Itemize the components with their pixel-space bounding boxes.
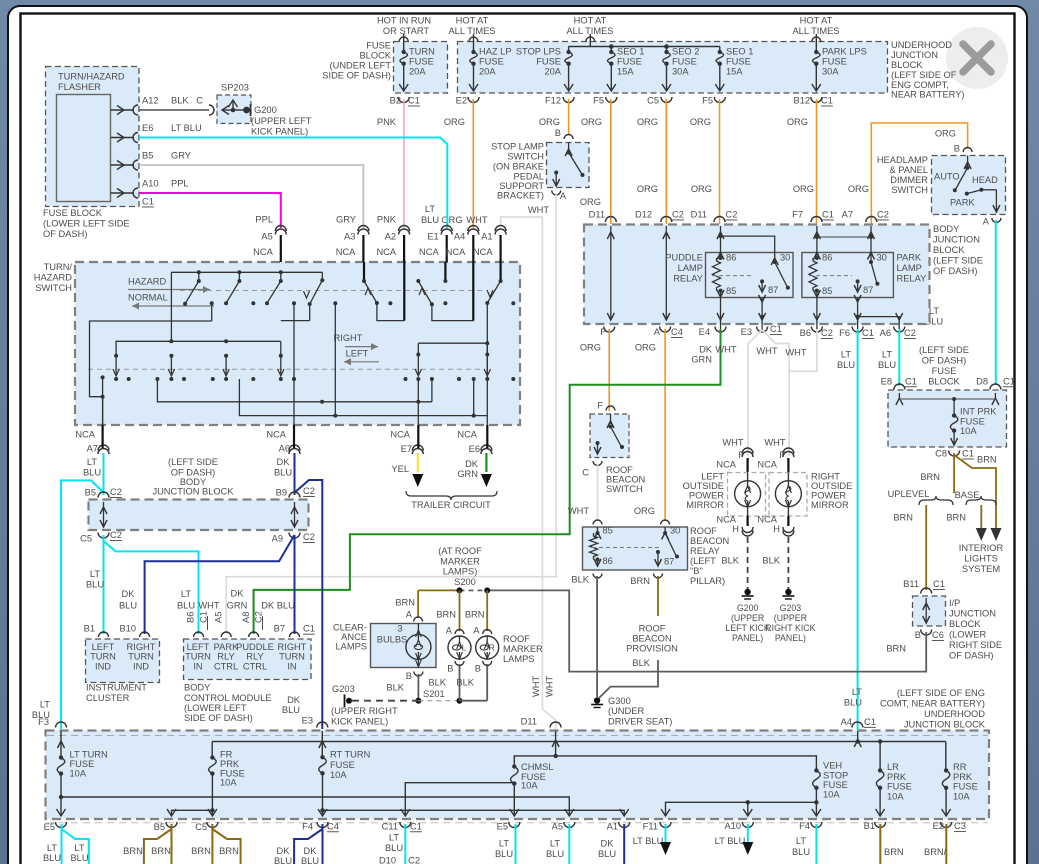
wire BLK dashed left mirror to G200: [747, 537, 749, 589]
svg-text:20A: 20A: [544, 67, 561, 77]
svg-text:C5: C5: [195, 822, 207, 832]
svg-text:RIGHT KICK: RIGHT KICK: [765, 623, 815, 633]
stop lamp switch box: [547, 143, 590, 188]
svg-text:GRY: GRY: [171, 151, 191, 161]
svg-text:DK: DK: [304, 846, 318, 856]
svg-text:BODY: BODY: [933, 224, 959, 234]
underhood junction block (top) box: [458, 42, 888, 94]
svg-text:C1: C1: [1003, 376, 1015, 386]
svg-text:A10: A10: [142, 179, 159, 189]
wire ORG B12 to F7: [816, 99, 818, 224]
svg-text:LEFT: LEFT: [187, 642, 210, 652]
svg-text:BRN: BRN: [436, 609, 456, 619]
svg-text:BLOCK: BLOCK: [928, 376, 960, 386]
svg-text:C4: C4: [327, 821, 339, 831]
svg-text:PNK: PNK: [377, 215, 397, 225]
svg-text:ORG: ORG: [793, 184, 814, 194]
svg-text:D10: D10: [379, 855, 396, 864]
svg-text:NCA: NCA: [757, 460, 777, 470]
wire WHT B6 to mirror join: [789, 329, 817, 371]
svg-text:BLU: BLU: [878, 360, 896, 370]
svg-text:NCA: NCA: [473, 247, 493, 257]
svg-text:C2: C2: [303, 486, 315, 496]
svg-text:LT BLU: LT BLU: [633, 836, 664, 846]
pin F12: [563, 97, 574, 103]
svg-text:A3: A3: [344, 231, 355, 241]
svg-text:F11: F11: [643, 821, 658, 831]
svg-text:(LEFT: (LEFT: [690, 556, 716, 566]
svg-text:INSTRUMENT: INSTRUMENT: [86, 683, 147, 693]
svg-text:KICK PANEL): KICK PANEL): [331, 717, 388, 727]
svg-text:C2: C2: [726, 210, 738, 220]
switch stationary dots row1: [210, 301, 214, 305]
svg-text:WHT: WHT: [568, 506, 589, 516]
right marker bulb: [476, 636, 499, 659]
svg-text:(LEFT SIDE: (LEFT SIDE: [919, 345, 969, 355]
svg-text:F5: F5: [593, 96, 604, 106]
svg-text:LT: LT: [796, 836, 806, 846]
svg-text:C2: C2: [877, 210, 889, 220]
pin B12 C1: [811, 97, 822, 103]
svg-text:ORG: ORG: [581, 117, 602, 127]
svg-text:FUSE: FUSE: [70, 759, 95, 769]
svg-text:LT: LT: [841, 350, 851, 360]
svg-text:BLU: BLU: [282, 705, 300, 715]
svg-text:RIGHT: RIGHT: [811, 472, 840, 482]
wire LT BLU E5b down: [515, 824, 517, 864]
park relay coil 86-85: [816, 248, 818, 258]
svg-text:STOP: STOP: [823, 770, 848, 780]
svg-text:BLK: BLK: [721, 556, 739, 566]
svg-text:F: F: [597, 401, 603, 411]
svg-text:RR: RR: [953, 762, 967, 772]
svg-text:C1: C1: [962, 449, 974, 459]
wire WHT stop lamp A down to BCM A5: [226, 193, 556, 634]
svg-text:C4: C4: [671, 327, 683, 337]
wires BLK markers to S201: [459, 664, 461, 701]
svg-text:PARK: PARK: [897, 253, 922, 263]
svg-text:B: B: [555, 128, 561, 138]
svg-text:ORG: ORG: [444, 117, 465, 127]
svg-text:RIGHT SIDE: RIGHT SIDE: [949, 640, 1002, 650]
svg-text:CTRL: CTRL: [243, 661, 267, 671]
feed bus A4 row: [212, 741, 946, 743]
svg-text:A10: A10: [724, 821, 741, 831]
svg-text:NCA: NCA: [376, 247, 396, 257]
svg-text:SYSTEM: SYSTEM: [962, 564, 1000, 574]
svg-text:BLK: BLK: [456, 677, 474, 687]
switch contact A1: [500, 262, 502, 281]
trailer circuit brace: [406, 491, 497, 500]
fuse block (under left side of dash) box: [394, 42, 448, 94]
svg-text:A: A: [560, 191, 567, 201]
svg-text:TURN: TURN: [279, 652, 305, 662]
wires BRN S200 to marker lamps: [459, 590, 461, 631]
svg-text:10A: 10A: [70, 769, 87, 779]
svg-text:HOT IN RUN: HOT IN RUN: [377, 16, 431, 26]
fuse SEO 1 second FUSE 15A: [718, 50, 722, 54]
svg-text:RIGHT: RIGHT: [334, 333, 363, 343]
svg-text:NCA: NCA: [716, 460, 736, 470]
svg-text:B: B: [954, 144, 960, 154]
wire LT BLU F6 to A4 bottom: [857, 329, 859, 730]
svg-text:COMT, NEAR BATTERY): COMT, NEAR BATTERY): [880, 699, 985, 709]
svg-text:FUSE: FUSE: [672, 57, 697, 67]
svg-text:F: F: [738, 450, 744, 460]
svg-text:OUTSIDE: OUTSIDE: [683, 481, 724, 491]
svg-text:10A: 10A: [887, 791, 904, 801]
svg-text:DRIVER SEAT): DRIVER SEAT): [608, 717, 672, 727]
svg-text:C1: C1: [862, 328, 874, 338]
wire WHT E3 split to mirrors: [748, 330, 762, 456]
svg-text:ROOF: ROOF: [690, 526, 717, 536]
svg-text:PRK: PRK: [887, 772, 907, 782]
wire YEL E7 trailer: [417, 453, 419, 472]
svg-text:10A: 10A: [953, 791, 970, 801]
wire PNK B2 to A2: [403, 99, 405, 228]
svg-text:E1: E1: [427, 231, 438, 241]
wire DK BLU A1 down: [623, 824, 625, 864]
svg-text:JUNCTION BLOCK: JUNCTION BLOCK: [152, 487, 234, 497]
pin F5: [606, 97, 617, 103]
svg-text:FUSE: FUSE: [960, 417, 985, 427]
svg-text:A8: A8: [241, 612, 251, 623]
svg-text:C1: C1: [933, 579, 945, 589]
pin A12 with arrow: [111, 109, 135, 111]
svg-text:B1: B1: [864, 821, 875, 831]
pin D11b C2 body jb: [714, 217, 725, 223]
svg-text:BEACON: BEACON: [690, 536, 729, 546]
svg-text:ORG: ORG: [637, 117, 658, 127]
svg-text:E6: E6: [142, 123, 153, 133]
wire BLK clearance B to S201: [417, 674, 419, 701]
svg-text:C5: C5: [647, 96, 659, 106]
svg-text:C2: C2: [672, 210, 684, 220]
right outside power mirror box: [769, 473, 807, 517]
wire LT BLU F4b down: [815, 824, 817, 864]
svg-text:15A: 15A: [617, 67, 634, 77]
svg-text:H: H: [773, 524, 780, 534]
svg-text:PEDAL: PEDAL: [514, 172, 545, 182]
svg-text:PRK: PRK: [220, 759, 240, 769]
svg-text:A5: A5: [261, 231, 272, 241]
svg-text:BASE: BASE: [955, 490, 980, 500]
bottom junction block box: [46, 731, 990, 820]
turn/hazard flasher inner module: [57, 95, 111, 202]
svg-text:"B": "B": [690, 566, 703, 576]
svg-text:NCA: NCA: [266, 429, 286, 439]
switch exit E6: [486, 303, 488, 425]
svg-text:LT: LT: [550, 838, 560, 848]
left jb internal arrows: [103, 502, 105, 527]
svg-text:BLU: BLU: [274, 468, 292, 478]
svg-text:15A: 15A: [726, 67, 743, 77]
svg-text:F: F: [779, 450, 785, 460]
svg-text:A12: A12: [142, 96, 159, 106]
svg-text:10A: 10A: [823, 790, 840, 800]
pin B clearance lamps: [414, 672, 423, 677]
svg-text:LT: LT: [181, 589, 191, 599]
svg-text:(UNDER LEFT: (UNDER LEFT: [330, 61, 392, 71]
svg-text:B11: B11: [903, 579, 919, 589]
roof beacon switch box: [590, 414, 629, 458]
svg-text:C1: C1: [822, 210, 834, 220]
wire DK BLU A6 to B9: [294, 453, 296, 495]
svg-text:HOT AT: HOT AT: [456, 16, 489, 26]
pin D8 C1: [990, 384, 1001, 390]
svg-text:85: 85: [603, 526, 613, 536]
svg-text:L: L: [462, 643, 467, 653]
svg-text:E6: E6: [469, 444, 480, 454]
svg-text:UNDERHOOD: UNDERHOOD: [924, 709, 985, 719]
ground G203 right: [785, 589, 791, 595]
wire ORG C5 to D12: [665, 99, 667, 224]
svg-text:F6: F6: [839, 328, 850, 338]
svg-text:B5: B5: [85, 488, 96, 498]
svg-text:LEFT: LEFT: [346, 349, 369, 359]
svg-text:30A: 30A: [672, 67, 689, 77]
pin E6 with arrow: [111, 137, 135, 139]
puddle relay 30 feed: [721, 236, 775, 252]
park relay switch arm: [870, 248, 872, 262]
pin A headlamp dimmer: [992, 218, 1001, 223]
svg-text:30A: 30A: [822, 67, 839, 77]
svg-text:SWITCH: SWITCH: [35, 283, 72, 293]
clearance bulb symbol: [406, 634, 431, 659]
svg-text:DIMMER: DIMMER: [890, 175, 928, 185]
park 87 branch to A6: [858, 317, 900, 330]
svg-text:C2: C2: [408, 855, 420, 864]
svg-text:(ON BRAKE: (ON BRAKE: [493, 162, 544, 172]
svg-text:TURN: TURN: [128, 652, 154, 662]
svg-text:OF DASH): OF DASH): [43, 229, 87, 239]
svg-text:A5: A5: [552, 821, 563, 831]
fuse STOP LPS FUSE 20A: [566, 50, 570, 54]
svg-text:FUSE: FUSE: [823, 780, 848, 790]
svg-text:CLEAR-: CLEAR-: [333, 623, 367, 633]
svg-text:LAMPS): LAMPS): [443, 567, 478, 577]
svg-text:CTRL: CTRL: [214, 661, 238, 671]
svg-text:C1: C1: [770, 324, 782, 334]
wire BRN base arrow: [980, 505, 982, 528]
fuse PARK LPS FUSE 30A: [815, 34, 817, 52]
svg-text:BRN/: BRN/: [924, 847, 947, 857]
svg-text:FR: FR: [220, 749, 233, 759]
ground G200: [744, 589, 750, 595]
svg-text:C2: C2: [110, 530, 122, 540]
svg-text:B5: B5: [154, 822, 165, 832]
svg-text:85: 85: [822, 286, 832, 296]
svg-text:ORG: ORG: [787, 117, 808, 127]
svg-text:HAZ LP: HAZ LP: [479, 47, 512, 57]
fuse HAZ LP FUSE 20A: [473, 34, 475, 52]
svg-text:TURN/: TURN/: [44, 262, 73, 272]
svg-text:B6: B6: [800, 328, 811, 338]
svg-text:C1: C1: [303, 624, 315, 634]
svg-text:CLUSTER: CLUSTER: [86, 693, 130, 703]
svg-text:LT: LT: [74, 843, 84, 853]
fuse TURN FUSE 20A: [403, 34, 405, 52]
svg-text:LT BLU: LT BLU: [715, 836, 746, 846]
svg-text:DK: DK: [699, 345, 713, 355]
svg-text:DK: DK: [465, 459, 479, 469]
relay feed bus: [817, 236, 871, 238]
svg-text:OF DASH): OF DASH): [922, 356, 966, 366]
svg-text:BRN: BRN: [893, 513, 913, 523]
bottom box pins top: [56, 722, 67, 727]
svg-text:BLU: BLU: [495, 849, 513, 859]
svg-text:(LEFT SIDE: (LEFT SIDE: [168, 457, 218, 467]
svg-text:E2: E2: [456, 96, 467, 106]
svg-text:G200: G200: [254, 105, 277, 115]
fuse RR PRK FUSE 10A: [945, 742, 947, 771]
svg-text:E5: E5: [44, 822, 55, 832]
svg-text:B9: B9: [276, 488, 287, 498]
branch to B5: [172, 810, 213, 816]
svg-text:YEL: YEL: [391, 464, 409, 474]
svg-text:WHT: WHT: [722, 438, 743, 448]
svg-text:A5: A5: [214, 612, 224, 623]
svg-text:B10: B10: [119, 624, 136, 634]
instrument cluster box: [86, 639, 160, 683]
svg-text:& PANEL: & PANEL: [889, 165, 928, 175]
wire BRN uplevel to B11: [925, 505, 927, 590]
svg-text:BLU: BLU: [274, 856, 292, 864]
svg-text:NCA: NCA: [75, 429, 95, 439]
svg-text:NCA: NCA: [757, 515, 777, 525]
wire BLK provision to G300: [599, 660, 658, 698]
svg-text:ANCE: ANCE: [341, 632, 367, 642]
wire WHT roof beacon C to relay 85: [597, 463, 599, 521]
svg-text:ORG: ORG: [634, 506, 655, 516]
svg-text:BLU: BLU: [598, 849, 616, 859]
svg-text:C: C: [582, 468, 589, 478]
svg-text:FUSE: FUSE: [953, 782, 978, 792]
svg-text:ORG: ORG: [635, 343, 656, 353]
svg-text:RLY: RLY: [246, 652, 263, 662]
pin E8 C1: [894, 384, 905, 390]
puddle lamp relay box: [706, 253, 794, 298]
svg-text:PUDDLE: PUDDLE: [236, 642, 274, 652]
roof beacon switch internals: [610, 414, 612, 424]
svg-text:B5: B5: [142, 151, 153, 161]
svg-text:AUTO: AUTO: [934, 172, 960, 182]
svg-text:87: 87: [863, 285, 873, 295]
switch contact 2: [238, 272, 240, 281]
svg-text:LT: LT: [87, 457, 97, 467]
svg-text:FUSE: FUSE: [536, 57, 561, 67]
svg-text:BLU: BLU: [421, 215, 439, 225]
park lamp relay box: [802, 253, 894, 298]
svg-text:87: 87: [768, 285, 778, 295]
svg-text:JUNCTION: JUNCTION: [949, 609, 996, 619]
svg-text:ORG: ORG: [637, 184, 658, 194]
svg-text:UPLEVEL: UPLEVEL: [888, 489, 930, 499]
SP203 internals: [222, 106, 229, 115]
svg-text:20A: 20A: [479, 67, 496, 77]
pin B11 C1 ip junction block: [921, 588, 932, 594]
pin C roof beacon switch: [593, 461, 602, 466]
wire ORG A7 riser to headlamp B: [871, 123, 967, 224]
svg-text:KICK PANEL): KICK PANEL): [251, 127, 308, 137]
svg-text:MIRROR: MIRROR: [811, 500, 849, 510]
svg-text:FUSE: FUSE: [366, 41, 391, 51]
switch left net to A7: [211, 303, 213, 321]
svg-text:E5: E5: [497, 821, 508, 831]
svg-text:F7: F7: [792, 210, 803, 220]
svg-text:LAMPS: LAMPS: [503, 654, 535, 664]
svg-text:F5: F5: [702, 96, 713, 106]
svg-text:BRN: BRN: [465, 609, 485, 619]
svg-text:FUSE: FUSE: [726, 57, 751, 67]
svg-text:A6: A6: [880, 328, 891, 338]
clearance lamps box: [371, 624, 437, 668]
svg-text:B6: B6: [186, 612, 196, 623]
branch to F11 A10: [666, 802, 817, 816]
switch contact 3: [280, 272, 282, 281]
svg-text:FUSE: FUSE: [887, 782, 912, 792]
svg-text:SEO 1: SEO 1: [726, 47, 753, 57]
svg-text:GRN: GRN: [691, 355, 712, 365]
svg-text:85: 85: [726, 286, 736, 296]
svg-text:LT: LT: [499, 838, 509, 848]
svg-text:NCA: NCA: [390, 429, 410, 439]
wire ORG F5b to D11b: [719, 99, 721, 224]
svg-text:F: F: [600, 327, 606, 337]
svg-text:A1: A1: [481, 231, 492, 241]
svg-text:STOP LAMP: STOP LAMP: [491, 142, 544, 152]
pin F5 second: [714, 97, 725, 103]
fuse VEH STOP FUSE 10A: [814, 768, 818, 772]
svg-text:ORG: ORG: [539, 117, 560, 127]
svg-text:BLK: BLK: [171, 96, 189, 106]
pin C8 C1: [949, 451, 960, 457]
svg-text:A4: A4: [841, 717, 852, 727]
close button: [946, 27, 1008, 89]
svg-text:C2: C2: [904, 328, 916, 338]
svg-text:D11: D11: [691, 210, 707, 220]
wire ORG F5 to D11: [610, 99, 612, 224]
svg-text:(LEFT SIDE: (LEFT SIDE: [933, 256, 983, 266]
svg-text:BRN: BRN: [884, 847, 904, 857]
svg-text:A: A: [473, 625, 480, 635]
svg-text:BRN: BRN: [946, 513, 966, 523]
switch dashed row2: [88, 368, 485, 370]
svg-text:30: 30: [877, 253, 887, 263]
wire LT BLU E5 down pair: [61, 824, 63, 864]
svg-text:IN: IN: [287, 661, 296, 671]
wire LT BLU C11 down: [404, 824, 406, 864]
svg-text:A9: A9: [272, 533, 283, 543]
switch exit A7: [102, 397, 104, 425]
svg-text:ENG COMPT,: ENG COMPT,: [891, 80, 949, 90]
svg-text:86: 86: [822, 253, 832, 263]
svg-text:BLU: BLU: [844, 698, 862, 708]
svg-text:MIRROR: MIRROR: [686, 500, 724, 510]
svg-text:DK: DK: [601, 838, 615, 848]
pin B left marker: [455, 661, 464, 666]
svg-text:ORG: ORG: [580, 343, 601, 353]
puddle relay 87 terminal: [760, 279, 764, 283]
wire LT BLU branch to F3: [61, 480, 104, 729]
svg-text:BLU: BLU: [70, 853, 88, 863]
svg-text:LR: LR: [887, 762, 899, 772]
svg-text:SEO 2: SEO 2: [672, 47, 699, 57]
svg-text:JUNCTION BLOCK: JUNCTION BLOCK: [904, 720, 986, 730]
svg-text:NORMAL: NORMAL: [128, 293, 168, 303]
svg-text:BRN: BRN: [191, 846, 211, 856]
svg-text:C2: C2: [110, 487, 122, 497]
